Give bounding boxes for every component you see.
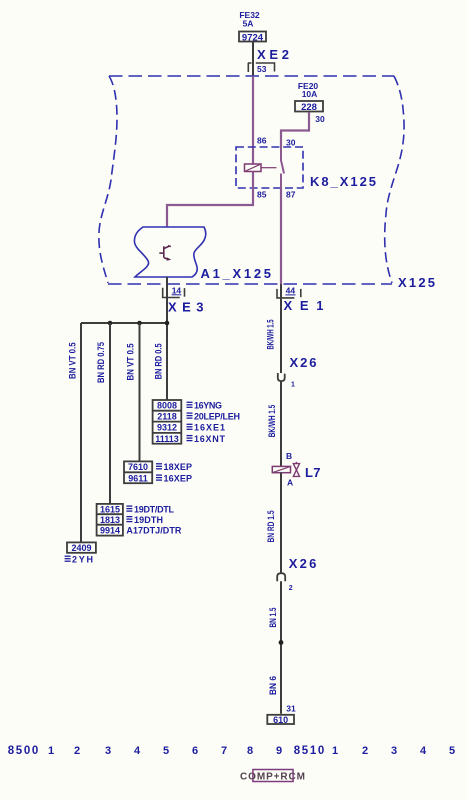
junction dot splice	[279, 640, 284, 645]
svg-text:11113: 11113	[155, 434, 179, 444]
svg-text:X26: X26	[290, 355, 317, 370]
svg-text:31: 31	[286, 703, 296, 713]
svg-text:BK/WH 1.5: BK/WH 1.5	[267, 405, 277, 438]
svg-text:1615: 1615	[100, 504, 120, 514]
svg-text:A: A	[287, 478, 293, 488]
svg-text:6: 6	[192, 745, 198, 757]
svg-text:1813: 1813	[100, 515, 120, 525]
svg-text:30: 30	[286, 138, 296, 148]
svg-text:9: 9	[276, 745, 282, 757]
wire L7 to X26 pin 2	[280, 473, 282, 574]
wire X E2 pin 53 to relay pin 86	[252, 76, 254, 164]
svg-text:2: 2	[74, 745, 80, 757]
svg-text:2409: 2409	[71, 543, 91, 553]
svg-text:18XEP: 18XEP	[164, 462, 193, 472]
svg-text:8510: 8510	[294, 745, 325, 757]
X125 region top dashed boundary	[109, 75, 394, 77]
wire X E1 to X26 pin 1	[280, 284, 282, 373]
svg-text:9611: 9611	[128, 473, 148, 483]
svg-text:2YH: 2YH	[72, 554, 93, 564]
reference label 20LEP/LEH	[187, 413, 193, 418]
svg-text:30: 30	[315, 114, 325, 124]
svg-text:XE1: XE1	[284, 298, 324, 313]
svg-text:44: 44	[286, 285, 296, 295]
svg-text:9724: 9724	[242, 32, 264, 43]
svg-text:7: 7	[221, 745, 227, 757]
svg-text:3: 3	[391, 745, 397, 757]
current track highlight box	[253, 770, 293, 782]
connector X E3 symbol	[163, 288, 185, 298]
svg-text:87: 87	[286, 189, 296, 199]
fuse box 228	[295, 101, 323, 113]
svg-text:20LEP/LEH: 20LEP/LEH	[194, 411, 240, 421]
ground box 610	[267, 715, 294, 725]
X125 region left wavy dashed boundary	[99, 76, 117, 283]
svg-text:2: 2	[362, 745, 368, 757]
reference label 18XEP	[156, 464, 162, 469]
svg-text:16XNT: 16XNT	[194, 434, 226, 444]
reference label 16XNT	[187, 436, 193, 441]
wire branch 1 down to box 2409	[80, 323, 82, 542]
wire 228 to relay pin 30	[281, 113, 309, 148]
svg-text:8008: 8008	[157, 401, 177, 411]
connector X E2 symbol	[248, 63, 275, 72]
svg-text:4: 4	[420, 745, 427, 757]
pin 14 underline	[172, 294, 182, 296]
svg-text:53: 53	[257, 64, 267, 74]
A1_X125 internal clutch symbol	[159, 246, 171, 260]
svg-text:7610: 7610	[128, 462, 148, 472]
pin 44 underline	[285, 294, 295, 296]
solenoid L7 coil	[272, 466, 290, 472]
svg-text:16XE1: 16XE1	[194, 423, 225, 433]
svg-text:X125: X125	[398, 275, 435, 290]
fuse box 9724	[239, 32, 266, 44]
svg-text:19DT/DTL: 19DT/DTL	[134, 504, 175, 514]
relay coil	[245, 164, 262, 172]
L7 valve bowtie symbol	[293, 462, 299, 477]
svg-text:2: 2	[289, 585, 293, 592]
svg-text:9914: 9914	[100, 526, 120, 536]
reference label 19DT/DTL	[126, 506, 132, 511]
svg-text:5A: 5A	[243, 19, 254, 29]
svg-text:BN RD 0.75: BN RD 0.75	[96, 342, 106, 383]
svg-text:1: 1	[291, 382, 295, 389]
svg-text:228: 228	[301, 102, 317, 113]
left branch horizontal bus	[81, 322, 167, 324]
relay coil-contact link	[261, 167, 277, 169]
reference label 16YNG	[187, 402, 193, 407]
junction dot at bus x139.5	[137, 321, 142, 326]
compressor A1_X125 blob outline	[134, 227, 205, 277]
svg-text:1: 1	[332, 745, 338, 757]
A1_X125 internal arrow head	[167, 257, 172, 261]
svg-text:K8_X125: K8_X125	[310, 174, 376, 189]
svg-text:BN RD 0.5: BN RD 0.5	[154, 343, 164, 379]
reference label 16XE1	[187, 424, 193, 429]
svg-text:BN VT 0.5: BN VT 0.5	[125, 343, 135, 380]
connector X26 pin 2 plug symbol	[277, 573, 285, 581]
connector X26 pin 1 socket symbol	[278, 373, 285, 381]
svg-text:B: B	[286, 451, 292, 461]
svg-text:5: 5	[163, 745, 169, 757]
svg-text:16XEP: 16XEP	[164, 473, 193, 483]
svg-text:4: 4	[134, 745, 141, 757]
svg-text:8500: 8500	[8, 745, 39, 757]
wire A1_X125 to X E3 and down	[166, 277, 168, 400]
svg-text:BN 6: BN 6	[268, 676, 278, 695]
svg-text:10A: 10A	[302, 89, 318, 99]
svg-text:BN 1.5: BN 1.5	[268, 607, 278, 627]
svg-text:BN RD 1.5: BN RD 1.5	[266, 510, 276, 542]
relay contact blade	[281, 147, 284, 188]
svg-text:A1_X125: A1_X125	[201, 266, 272, 281]
wire 9724 to X E2	[252, 42, 254, 76]
X125 region bottom dashed boundary	[108, 283, 392, 285]
svg-text:610: 610	[273, 715, 288, 725]
junction dot at bus x110	[108, 321, 113, 326]
svg-text:5: 5	[449, 745, 455, 757]
svg-text:XE3: XE3	[168, 300, 204, 315]
junction dot at bus x167	[165, 321, 170, 326]
X125 region right wavy dashed boundary	[385, 76, 404, 283]
destination box stack 8008/2118/9312/11113	[153, 400, 182, 444]
relay K8_X125 dashed box	[236, 147, 303, 188]
reference label 2YH	[65, 556, 71, 561]
svg-text:19DTH: 19DTH	[134, 515, 163, 525]
svg-text:14: 14	[172, 285, 182, 295]
destination box stack 1615/1813/9914	[97, 504, 123, 536]
wire relay pin 87 to X E1	[280, 188, 282, 284]
reference label 19DTH	[126, 517, 132, 522]
svg-text:BN VT 0.5: BN VT 0.5	[68, 342, 78, 379]
svg-text:A17DTJ/DTR: A17DTJ/DTR	[126, 526, 181, 536]
wire branch 3 down to box 7610	[139, 323, 141, 461]
svg-text:16YNG: 16YNG	[194, 401, 222, 411]
wire X26 pin2 to ground 610	[280, 581, 282, 714]
wire branch 2 down to box 1615	[109, 323, 111, 504]
svg-text:1: 1	[48, 745, 54, 757]
svg-text:BK/WH 1.5: BK/WH 1.5	[266, 319, 276, 349]
svg-text:8: 8	[247, 745, 253, 757]
svg-text:2118: 2118	[157, 411, 177, 421]
reference label 16XEP	[156, 475, 162, 480]
svg-text:86: 86	[257, 136, 267, 146]
svg-text:XE2: XE2	[257, 47, 289, 62]
wire relay pin 85 to A1_X125	[167, 172, 253, 228]
svg-text:9312: 9312	[157, 423, 177, 433]
svg-text:L7: L7	[305, 465, 321, 480]
destination box stack 7610/9611	[124, 461, 152, 483]
svg-text:3: 3	[105, 745, 111, 757]
connector X E1 symbol	[277, 289, 301, 298]
destination box 2409	[67, 542, 96, 553]
svg-text:85: 85	[257, 189, 267, 199]
wire X26 pin1 to L7	[280, 381, 282, 466]
svg-text:X26: X26	[289, 556, 317, 571]
